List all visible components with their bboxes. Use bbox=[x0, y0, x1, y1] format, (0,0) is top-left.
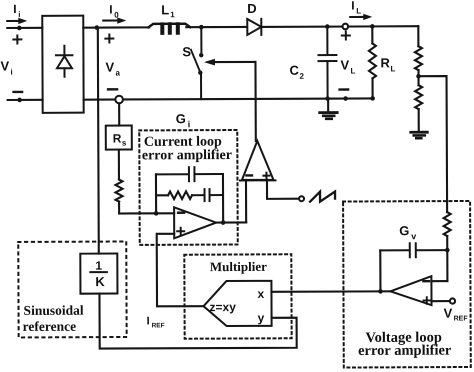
resistor (current loop input) bbox=[115, 179, 122, 201]
diode D bbox=[247, 19, 261, 35]
svg-text:V: V bbox=[444, 306, 453, 321]
svg-text:G: G bbox=[399, 223, 409, 238]
svg-text:reference: reference bbox=[23, 319, 77, 334]
wire non-inverting input bbox=[432, 300, 450, 302]
wire op-amp output to multiplier x bbox=[271, 290, 390, 293]
wire input bottom bbox=[8, 99, 43, 101]
node divider mid bbox=[416, 74, 421, 79]
terminal circle ramp bbox=[299, 196, 304, 201]
wire feedback left leg bbox=[379, 250, 381, 291]
svg-text:Sinusoidal: Sinusoidal bbox=[24, 303, 84, 318]
dashed box current loop bbox=[139, 130, 237, 245]
node input bottom bbox=[17, 98, 22, 103]
svg-text:z=xy: z=xy bbox=[209, 300, 236, 314]
svg-text:2: 2 bbox=[300, 72, 305, 81]
node Va sense bbox=[94, 25, 99, 30]
svg-text:G: G bbox=[176, 111, 186, 126]
svg-text:L: L bbox=[350, 66, 355, 75]
wire multiplier y input bbox=[99, 293, 296, 349]
node Gv bbox=[445, 248, 450, 253]
node switch branch bbox=[199, 25, 204, 30]
wire inverting input bbox=[431, 280, 447, 282]
node output/feedback bbox=[221, 220, 226, 225]
op-amp voltage loop error amplifier bbox=[390, 276, 431, 305]
svg-text:D: D bbox=[247, 1, 256, 16]
svg-text:V: V bbox=[105, 60, 114, 75]
label Gv bbox=[399, 223, 416, 241]
svg-text:C: C bbox=[289, 63, 299, 78]
block 1/K bbox=[80, 254, 117, 294]
wire comparator output (vertical) bbox=[254, 62, 256, 141]
resistor RL bbox=[369, 26, 376, 98]
label C2 bbox=[289, 63, 304, 81]
node C2 bottom bbox=[325, 96, 330, 101]
wire rail to Rs bbox=[118, 103, 120, 125]
current arrow I0 bbox=[103, 17, 126, 24]
sense node circle (Rs tap) bbox=[115, 96, 123, 104]
svg-text:i: i bbox=[10, 67, 12, 76]
node C2 top bbox=[325, 24, 330, 29]
label IREF bbox=[147, 315, 165, 329]
resistor (voltage loop input) bbox=[444, 212, 451, 236]
node op-amp output bbox=[378, 289, 383, 294]
bridge rectifier bbox=[42, 16, 83, 113]
svg-text:y: y bbox=[258, 311, 265, 325]
svg-text:x: x bbox=[257, 287, 264, 301]
svg-text:i: i bbox=[18, 10, 20, 19]
label RL bbox=[380, 55, 395, 73]
svg-text:error amplifier: error amplifier bbox=[358, 343, 452, 359]
label VL bbox=[340, 57, 355, 75]
label Ii bbox=[13, 2, 20, 19]
svg-text:I: I bbox=[13, 2, 16, 16]
capacitor C2 bbox=[318, 27, 336, 99]
svg-text:K: K bbox=[95, 274, 105, 289]
label I0 bbox=[109, 3, 119, 20]
node RL top bbox=[370, 24, 375, 29]
svg-text:I: I bbox=[147, 315, 150, 327]
capacitor outer feedback bbox=[156, 167, 223, 181]
wire bottom rail (bridge to RL) bbox=[84, 98, 373, 99]
wire Rs down bbox=[118, 150, 120, 180]
label Vi bbox=[0, 58, 12, 76]
wire feedback left leg (current loop) bbox=[155, 174, 157, 213]
resistor divider lower bbox=[415, 85, 422, 109]
multiplier block bbox=[203, 281, 271, 326]
svg-text:L: L bbox=[356, 6, 361, 15]
svg-text:REF: REF bbox=[152, 322, 165, 329]
op-amp current loop error amplifier bbox=[174, 207, 216, 238]
svg-text:R: R bbox=[380, 55, 390, 70]
sawtooth waveform bbox=[310, 192, 335, 202]
svg-text:S: S bbox=[182, 44, 191, 59]
ground (C2) bbox=[320, 99, 338, 119]
node on bottom rail bbox=[343, 96, 348, 101]
terminal circle VL+ bbox=[342, 24, 348, 30]
wire non-inverting input path bbox=[157, 234, 204, 307]
wire bbox=[417, 70, 419, 85]
wire comparator inverting input bbox=[245, 180, 247, 222]
svg-text:s: s bbox=[122, 138, 127, 147]
current arrow IL bbox=[350, 14, 372, 20]
terminal + (input) bbox=[13, 35, 21, 43]
terminal - (VL) bbox=[340, 88, 348, 90]
label IL bbox=[351, 0, 361, 15]
svg-text:L: L bbox=[161, 2, 169, 17]
resistor inner feedback bbox=[156, 191, 192, 199]
wire bbox=[418, 109, 420, 131]
comparator (PWM) bbox=[240, 141, 276, 181]
wire top rail (bridge to L1) bbox=[83, 26, 149, 28]
terminal - (input) bbox=[14, 91, 22, 93]
terminal VREF circle bbox=[450, 298, 455, 303]
inductor L1 bbox=[148, 24, 190, 33]
svg-text:a: a bbox=[115, 69, 120, 78]
wire top rail (L1 to diode) bbox=[186, 26, 246, 28]
capacitor Gv feedback bbox=[380, 243, 447, 257]
wire feedback right leg bbox=[222, 174, 224, 222]
wire Va sense to 1/K bbox=[97, 28, 100, 254]
wire right corner down to divider bbox=[417, 26, 419, 46]
control arrow from comparator to switch bbox=[204, 59, 256, 66]
switch S bbox=[191, 27, 204, 99]
dashed box voltage loop bbox=[343, 201, 471, 368]
svg-text:V: V bbox=[0, 58, 9, 73]
label VREF bbox=[444, 305, 469, 322]
wire to summing node bbox=[119, 201, 174, 213]
node RL bottom bbox=[370, 96, 375, 101]
node input top bbox=[17, 26, 22, 31]
terminal + (Va) bbox=[105, 35, 113, 43]
svg-text:Multiplier: Multiplier bbox=[210, 259, 267, 274]
dashed box sinusoidal reference bbox=[18, 241, 126, 337]
terminal - (Va) bbox=[108, 88, 117, 90]
svg-text:REF: REF bbox=[454, 315, 469, 322]
svg-text:V: V bbox=[340, 58, 349, 73]
svg-text:I: I bbox=[109, 3, 112, 17]
wire input top bbox=[7, 27, 42, 29]
svg-text:1: 1 bbox=[170, 10, 175, 19]
svg-text:I: I bbox=[351, 0, 354, 12]
dashed box multiplier bbox=[184, 254, 291, 338]
label Va bbox=[105, 60, 120, 78]
terminal + (VL) bbox=[342, 32, 350, 40]
block Rs bbox=[106, 125, 132, 149]
svg-text:1: 1 bbox=[95, 259, 102, 273]
svg-text:L: L bbox=[390, 64, 395, 73]
capacitor inner feedback bbox=[192, 189, 223, 201]
svg-text:R: R bbox=[113, 132, 122, 146]
current arrow Ii bbox=[7, 18, 27, 24]
wire feedback from divider bbox=[419, 76, 448, 212]
label L1 bbox=[161, 2, 175, 19]
wire top rail (diode to right corner) bbox=[261, 25, 418, 28]
svg-text:i: i bbox=[188, 119, 191, 129]
node summing bbox=[154, 211, 159, 216]
label Gi bbox=[176, 111, 191, 129]
resistor divider upper bbox=[415, 46, 422, 70]
wire bbox=[446, 236, 448, 281]
svg-text:error amplifier: error amplifier bbox=[142, 148, 232, 163]
wire comparator ramp input bbox=[267, 180, 299, 199]
wire op-amp output bbox=[216, 221, 246, 223]
ground (divider) bbox=[411, 131, 427, 134]
svg-text:v: v bbox=[411, 231, 416, 241]
